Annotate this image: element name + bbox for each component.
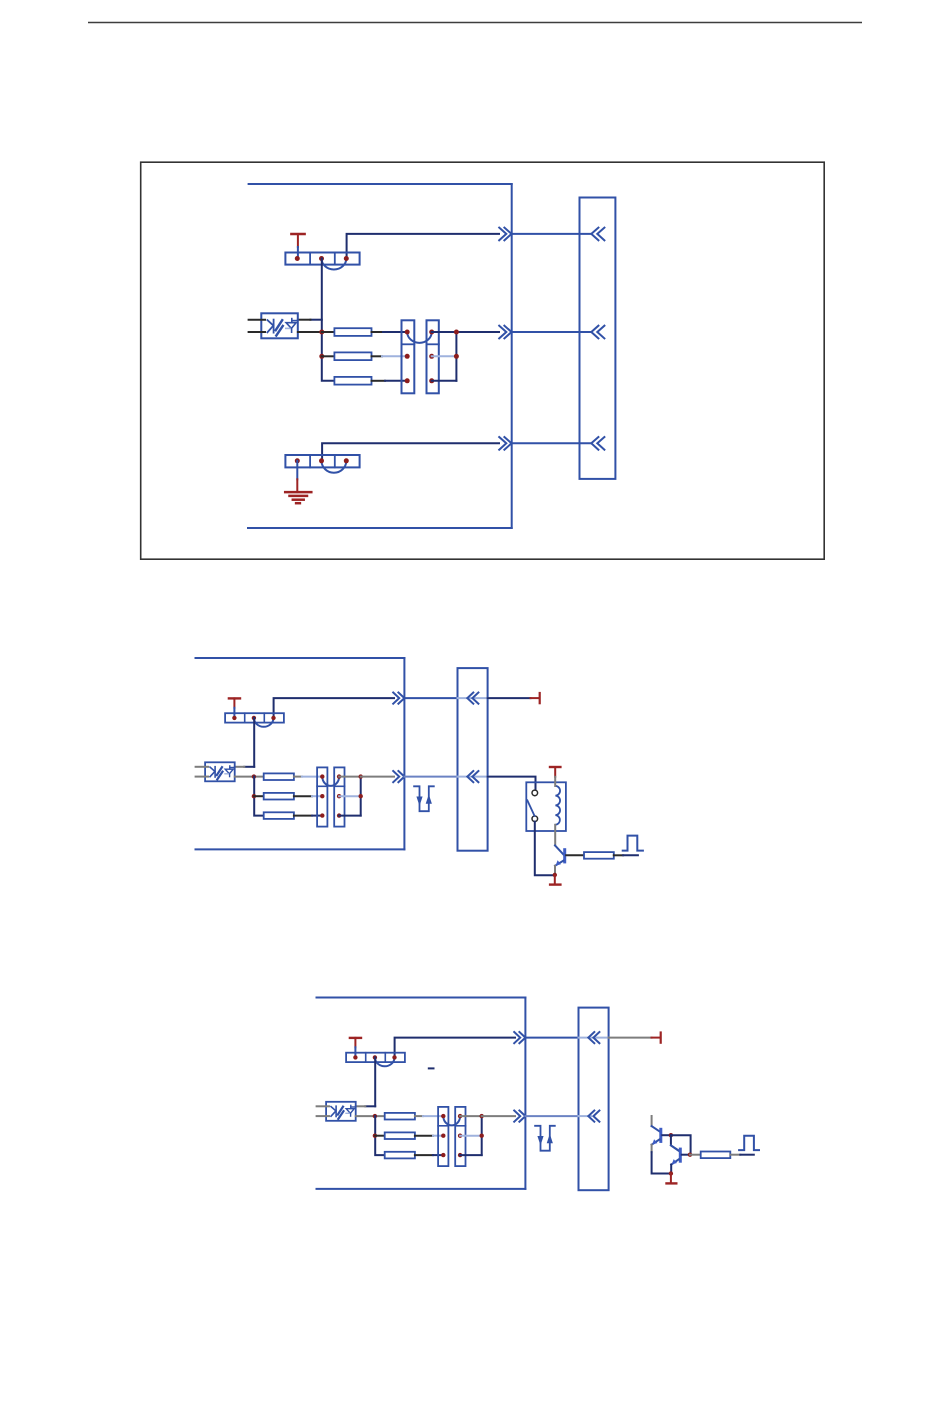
- junction dot row1 left (fig3): [373, 1114, 377, 1118]
- wire: row1 inside CN3: [579, 1037, 609, 1039]
- wire: row1 from header to edge (fig3): [395, 1038, 515, 1058]
- resistor R9: [385, 1132, 415, 1139]
- arrow chevrons row2 out: [393, 771, 404, 782]
- minus label: [429, 1067, 434, 1069]
- wire: block F row3 to column (fig3): [460, 1154, 482, 1156]
- connector block A: [402, 320, 415, 393]
- resistor R6: [264, 812, 294, 819]
- terminal bar ext supply (fig3): [660, 1033, 662, 1043]
- wire: field box bottom (fig3): [317, 1188, 526, 1190]
- resistor R2: [334, 352, 371, 360]
- jumper arc JP3: [254, 718, 274, 727]
- wire: into opto collector pin: [244, 766, 254, 768]
- pin dot JP4-2: [373, 1055, 377, 1059]
- wire: board edge vertical: [403, 658, 405, 849]
- relay coil: [555, 786, 560, 825]
- wire: row1 net from header to edge: [347, 234, 499, 258]
- jumper arc JP4: [375, 1057, 395, 1066]
- pin dot JP3-2: [252, 716, 256, 720]
- power terminal T2: [229, 697, 240, 699]
- transistor Q1: [555, 845, 563, 854]
- connector block D: [334, 767, 344, 826]
- pin dot JP4-1: [353, 1055, 357, 1059]
- wire: R10 to block E: [415, 1154, 433, 1156]
- wire: field-wiring box top: [249, 183, 512, 185]
- wire: base node over to drive node: [671, 1135, 691, 1155]
- arrow chevrons row2 out: [499, 326, 511, 339]
- wire: row1 out to ext supply: [488, 697, 531, 699]
- arrow chevrons row1 in (fig3): [588, 1032, 599, 1043]
- wire: collector feed stub: [651, 1116, 653, 1126]
- wire: left resistor column: [322, 332, 335, 381]
- wire: base to resistor: [566, 854, 584, 856]
- wire: right tie column: [360, 777, 362, 816]
- wire: right tie column: [455, 332, 457, 381]
- jumper arc between blocks: [407, 332, 432, 343]
- wire: stub to R9: [375, 1135, 385, 1137]
- wire: drive node to resistor: [690, 1154, 701, 1156]
- wire: block F row2 to column (fig3): [460, 1135, 482, 1137]
- arrow chevrons row1 out: [499, 228, 511, 241]
- connector CN3 (bus): [579, 1008, 609, 1191]
- relay contact top: [532, 790, 538, 796]
- arrow chevrons row3 in: [591, 437, 604, 450]
- wire: block F row1 to column (fig3): [460, 1115, 482, 1117]
- wire: board edge vertical: [511, 184, 513, 528]
- header JP1: [285, 253, 359, 265]
- block pin dots: [320, 774, 324, 778]
- optocoupler U3: [326, 1102, 356, 1121]
- wire: row1 edge to CN3: [525, 1037, 578, 1039]
- connector block B: [427, 320, 439, 393]
- resistor R4: [264, 773, 294, 780]
- wire: stub to R1: [322, 331, 335, 333]
- wire: R2 to block A: [372, 355, 383, 357]
- power terminal T6: [670, 1174, 672, 1183]
- junction dot right row2: [454, 354, 459, 359]
- arrow chevrons row3 out: [499, 437, 511, 450]
- wire: opto emitter out (fig3): [356, 1115, 385, 1117]
- junction dot emitter node: [669, 1171, 673, 1175]
- resistor R7: [584, 852, 614, 859]
- wire: row2 inside CN3: [579, 1115, 592, 1117]
- wire: resistor to drive: [614, 854, 623, 856]
- junction dot row1 left: [252, 774, 256, 778]
- transistor Q2: [652, 1126, 660, 1131]
- wire: Q2 base to node: [662, 1134, 671, 1136]
- header JP4: [346, 1053, 405, 1062]
- wire: header middle pin down: [253, 718, 255, 767]
- wire: field box top: [196, 657, 405, 659]
- wire: left resistor column (fig3): [375, 1116, 385, 1155]
- wire: stub to R2: [322, 355, 335, 357]
- junction dot emitter: [553, 873, 557, 877]
- wire: row1 from header to edge: [274, 698, 394, 718]
- wire: block B row1 to right column: [432, 331, 457, 333]
- wire: block B row2 to right column: [432, 355, 457, 357]
- connector CN2 (bus): [458, 668, 488, 851]
- wire: opto input lead top: [249, 319, 265, 321]
- wire: row2 edge to CN1: [512, 331, 592, 333]
- block pin dots: [405, 330, 410, 335]
- resistor R10: [385, 1152, 415, 1159]
- connector block F: [455, 1107, 465, 1166]
- connector block E: [438, 1107, 448, 1166]
- connector block C: [317, 767, 327, 826]
- power terminal T3 above coil: [550, 766, 560, 768]
- jumper arc JP1: [322, 259, 347, 270]
- wire: resistor to pulse: [730, 1154, 740, 1156]
- arrow chevrons row1 in: [467, 693, 478, 704]
- wire: row2 inside CN2: [458, 776, 488, 778]
- wire: relay bottom contact to emitter node: [535, 822, 555, 876]
- wire: field box top (fig3): [317, 997, 526, 999]
- wire: field box bottom: [196, 848, 405, 850]
- wire: row2 edge to CN2: [404, 776, 457, 778]
- relay contact bottom: [532, 816, 538, 822]
- wire: block D row3 to column: [339, 815, 361, 817]
- wire: row2 right column to edge: [456, 331, 499, 333]
- current loop symbol (fig3): [535, 1126, 555, 1151]
- wire: block D row2 to column: [339, 795, 361, 797]
- wire: Q3 emitter down: [670, 1165, 672, 1174]
- wire: node down to Q3 collector: [671, 1135, 679, 1151]
- wire: right tie column (fig3): [481, 1116, 483, 1155]
- wire: R3 to block A: [372, 380, 386, 382]
- header JP3: [225, 713, 284, 722]
- arrow chevrons row2 in: [467, 771, 478, 782]
- wire: into opto collector pin (fig3): [365, 1105, 375, 1107]
- pin dot JP3-1: [232, 716, 236, 720]
- wire: opto input lead top: [196, 766, 208, 768]
- wire: coil bottom to transistor: [554, 825, 556, 846]
- wire: field-wiring box bottom: [248, 527, 512, 529]
- wire: R4 to block C: [294, 776, 302, 778]
- wire: R8 to block E: [415, 1115, 423, 1117]
- pin dot JP2-2: [319, 458, 324, 463]
- wire: block B row3 to right column: [432, 380, 457, 382]
- pin dot JP1-1: [295, 256, 300, 261]
- pulse waveform symbol (fig3): [739, 1136, 759, 1150]
- arrow chevrons row1 in: [591, 228, 604, 241]
- wire: row2 approach to edge (fig3): [482, 1115, 515, 1117]
- wire: opto input lead bottom (fig3): [317, 1115, 329, 1117]
- ground symbol: [296, 461, 298, 480]
- resistor R1: [334, 328, 371, 336]
- resistor R8: [385, 1113, 415, 1120]
- transistor Q3: [671, 1145, 679, 1150]
- arrow chevrons row2 in: [591, 326, 604, 339]
- junction dot right row1 (fig3): [480, 1114, 484, 1118]
- pin dot JP3-3: [271, 716, 275, 720]
- wire: row1 out to ext supply (fig3): [609, 1037, 652, 1039]
- pin dot JP1-2: [319, 256, 324, 261]
- junction dot right row2: [359, 794, 363, 798]
- block pin dots (fig3): [441, 1114, 445, 1118]
- wire: row1 inside CN2: [458, 697, 488, 699]
- wire: opto input lead top (fig3): [317, 1105, 329, 1107]
- relay K1: [526, 782, 566, 831]
- junction dot row2 left: [319, 354, 324, 359]
- junction dot Q3 base: [688, 1153, 692, 1157]
- power terminal T1: [291, 233, 304, 236]
- power terminal T4 below: [554, 875, 556, 884]
- wire: board edge vertical (fig3): [524, 998, 526, 1189]
- junction dot right row1: [454, 330, 459, 335]
- terminal bar ext supply: [539, 693, 541, 703]
- pulse waveform symbol: [623, 836, 643, 851]
- wire: Q2 emitter down left side: [651, 1145, 653, 1152]
- relay switch arm: [527, 800, 534, 816]
- wire: into opto collector pin: [310, 319, 321, 321]
- wire: R9 to block E: [415, 1135, 433, 1137]
- pin dot JP4-3: [392, 1055, 396, 1059]
- wire: left resistor column: [254, 777, 264, 816]
- wire: R6 to block C: [294, 815, 312, 817]
- jumper arc JP2: [322, 461, 347, 473]
- figure 1 border frame: [141, 162, 825, 559]
- junction dot Q2 base: [669, 1133, 673, 1137]
- pin dot JP2-1: [295, 458, 300, 463]
- junction dot right row1: [359, 774, 363, 778]
- wire: row2 approach to edge: [361, 776, 394, 778]
- junction dot row1 left: [319, 330, 324, 335]
- wire: row2 edge to CN3: [525, 1115, 578, 1117]
- resistor R5: [264, 793, 294, 800]
- jumper arc between blocks (fig3): [443, 1116, 460, 1125]
- junction dot row2 left (fig3): [373, 1134, 377, 1138]
- wire: emitter down: [554, 866, 556, 873]
- arrow chevrons row2 in (fig3): [588, 1111, 599, 1122]
- jumper arc between blocks: [322, 777, 339, 786]
- wire: block D row1 to column: [339, 776, 361, 778]
- wire: R1 to block A: [372, 331, 384, 333]
- power terminal T5: [350, 1037, 361, 1039]
- wire: Q3 base wire: [682, 1154, 690, 1156]
- wire: row3 net from bottom header to edge: [322, 443, 499, 461]
- arrow chevrons row1 out (fig3): [514, 1032, 525, 1043]
- wire: row2 to relay: [488, 777, 536, 790]
- arrow chevrons row2 out (fig3): [514, 1111, 525, 1122]
- bottom header JP2: [285, 455, 359, 467]
- junction dot row2 left: [252, 794, 256, 798]
- wire: opto emitter out: [235, 776, 264, 778]
- optocoupler U2: [205, 762, 235, 781]
- resistor R3: [334, 377, 371, 385]
- wire: header middle pin down (fig3): [374, 1057, 376, 1106]
- pin dot JP2-3: [344, 458, 349, 463]
- wire: stub to R5: [254, 795, 264, 797]
- wire: opto input lead bottom: [249, 331, 265, 333]
- optocoupler U1: [261, 313, 298, 338]
- page header rule: [88, 22, 862, 24]
- wire: opto emitter out to node: [298, 331, 322, 333]
- resistor R11: [701, 1152, 731, 1159]
- wire: row1 edge to CN2: [404, 697, 457, 699]
- junction dot right row2 (fig3): [480, 1134, 484, 1138]
- wire: header middle pin down to opto node: [321, 259, 323, 333]
- arrow chevrons row1 out: [393, 693, 404, 704]
- wire: opto input lead bottom: [196, 776, 208, 778]
- connector CN1 (bus): [580, 198, 616, 479]
- wire: R5 to block C: [294, 795, 312, 797]
- wire: row3 edge to CN1: [512, 442, 592, 444]
- wire: row1 edge to CN1: [512, 233, 592, 235]
- current loop symbol: [414, 786, 434, 811]
- pin dot JP1-3: [344, 256, 349, 261]
